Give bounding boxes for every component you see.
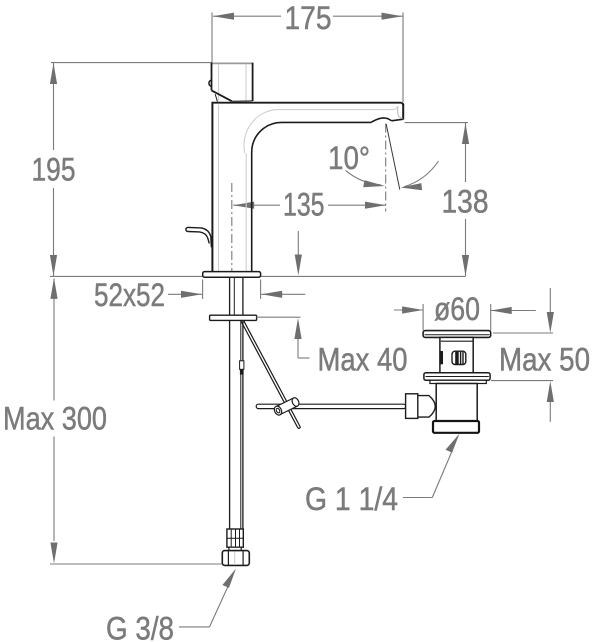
svg-text:ø60: ø60: [434, 291, 480, 327]
dimension Max 40 bottom arrow and leader: [294, 318, 309, 358]
dimension 138 extension line top: [405, 122, 469, 124]
svg-text:10°: 10°: [328, 140, 370, 176]
handle side knob: [209, 80, 212, 86]
faucet body and spout outline: [212, 102, 404, 271]
angle arc right with arrow: [401, 161, 439, 190]
dimension 138 line and arrows: [462, 123, 469, 276]
pop-up rod lower guide: [240, 361, 244, 375]
hose connector hex nut G 3/8: [222, 551, 249, 566]
dimension 135 line and arrows: [233, 202, 386, 209]
hose connector threaded section: [227, 529, 243, 547]
dimension text 195: [32, 152, 76, 188]
dimension 52x52 arrows: [168, 291, 305, 298]
dimension diameter 60 arrows: [394, 306, 536, 314]
deck reference line: [50, 275, 466, 277]
mounting washer: [210, 315, 257, 320]
drain bottom nut: [433, 421, 479, 433]
label G 3/8 leader: [179, 569, 236, 627]
dimension 175 line and arrows: [213, 13, 403, 20]
svg-text:G 1 1/4: G 1 1/4: [305, 481, 398, 517]
supply hose below deck: [230, 277, 243, 529]
faucet base plate: [203, 272, 261, 278]
dimension 195 line and arrows: [50, 63, 57, 276]
dimension text Max 300: [3, 401, 107, 437]
rod joint at drain: [406, 394, 436, 419]
drain lower body: [436, 384, 477, 422]
dimension text Max 40: [318, 341, 408, 377]
dimension Max 300 line and arrows: [50, 278, 57, 564]
dimension text Max 50: [499, 341, 590, 377]
dimension text 10 degrees: [328, 140, 370, 176]
dimension 52x52 extension lines: [203, 280, 261, 300]
svg-text:G 3/8: G 3/8: [106, 611, 174, 642]
drain pop-up waste: cap: [423, 331, 491, 338]
dimension Max 40 washer extension line: [257, 316, 301, 318]
angle arc left with arrow: [346, 170, 385, 187]
hose connector neck: [229, 547, 241, 550]
drain upper body: [440, 337, 473, 373]
rod clamp barrel: [273, 396, 300, 416]
label G 1 1/4 leader: [403, 434, 460, 498]
dimension 175 extension line left: [211, 13, 213, 65]
svg-text:138: 138: [442, 184, 489, 220]
dimension text 135: [283, 187, 325, 223]
centerline of faucet body (dash-dot): [231, 183, 233, 276]
svg-text:Max 300: Max 300: [3, 401, 107, 437]
dimension Max 50 extension lines: [491, 333, 553, 381]
dimension diameter 60 extension lines: [423, 304, 491, 331]
dimension 175 extension line right: [402, 13, 404, 103]
spout inner highlight lines: [219, 105, 403, 272]
dimension text 52x52: [94, 277, 165, 313]
svg-text:52x52: 52x52: [94, 277, 165, 313]
svg-text:195: 195: [32, 152, 76, 188]
faucet handle head: [211, 63, 252, 101]
drain pull lever hook on body: [186, 227, 212, 247]
dimension text 175: [285, 0, 332, 36]
dimension text diameter 60: [434, 291, 480, 327]
drain upper flange: [424, 373, 490, 384]
horizontal linkage rod: [256, 404, 406, 408]
water stream 10 degree slanted line: [386, 124, 400, 190]
svg-text:175: 175: [285, 0, 332, 36]
label text G 3/8: [106, 611, 174, 642]
drain knob window: [452, 351, 466, 364]
svg-text:135: 135: [283, 187, 325, 223]
svg-text:Max 50: Max 50: [499, 341, 590, 377]
dimension 195 extension line top: [51, 62, 213, 64]
svg-text:Max 40: Max 40: [318, 341, 408, 377]
dimension text 138: [442, 184, 489, 220]
dimension Max 300 bottom extension line: [50, 563, 222, 565]
dimension Max 50 arrows: [547, 288, 554, 422]
handle lever: [212, 90, 253, 101]
centerline of spout outlet (dash-dot): [385, 124, 387, 212]
label text G 1 1/4: [305, 481, 398, 517]
pop-up rod diagonal: [239, 316, 300, 428]
dimension Max 40 top arrow: [295, 231, 302, 276]
